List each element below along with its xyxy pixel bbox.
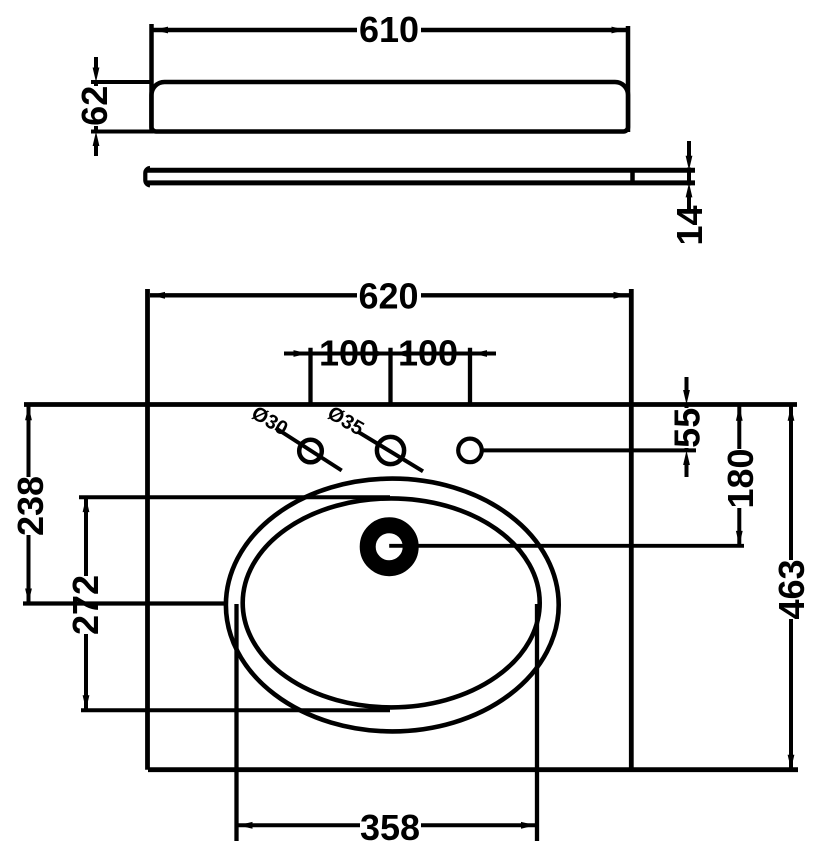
svg-text:358: 358 [360,807,420,848]
svg-text:62: 62 [74,86,115,126]
svg-text:238: 238 [10,476,51,536]
svg-text:463: 463 [771,559,812,619]
svg-text:100: 100 [319,333,379,374]
svg-text:55: 55 [667,408,708,448]
svg-text:14: 14 [669,205,710,245]
svg-text:610: 610 [359,9,419,50]
svg-text:180: 180 [720,448,761,508]
svg-text:620: 620 [358,276,418,317]
svg-text:100: 100 [398,333,458,374]
